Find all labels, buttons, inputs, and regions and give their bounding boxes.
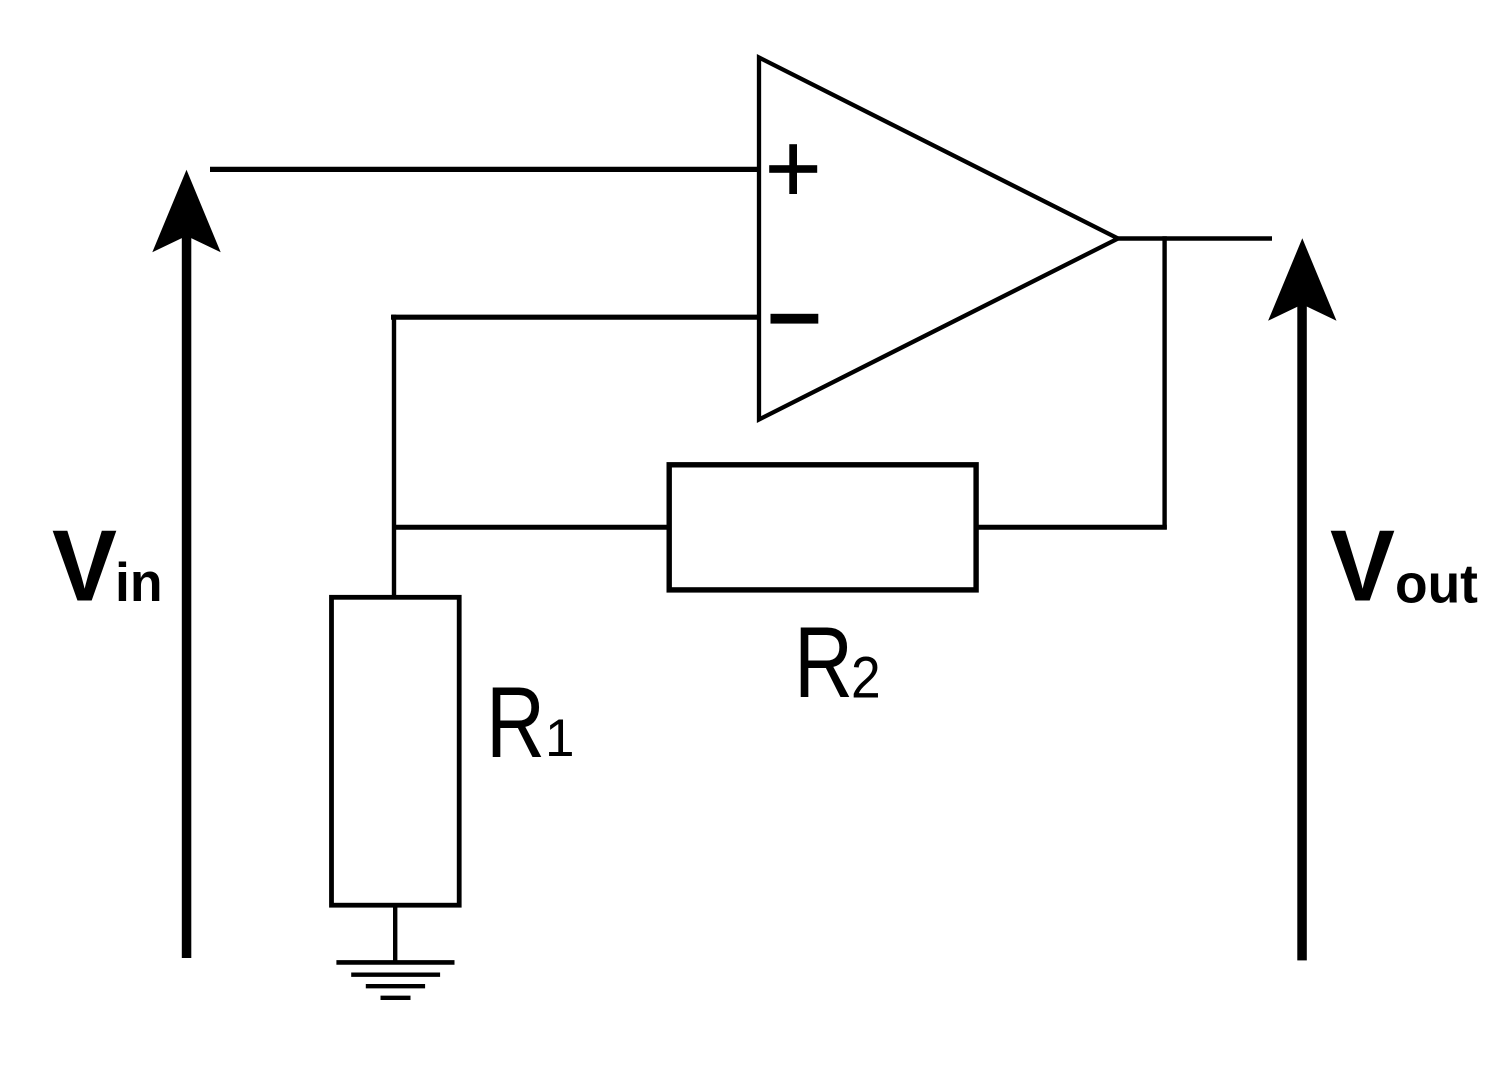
- svg-text:out: out: [1395, 554, 1478, 615]
- wire: non-inverting input wire: [210, 167, 757, 172]
- op-amp plus pin label: [769, 144, 817, 194]
- wire: R1 to ground: [393, 903, 397, 962]
- wire: feedback horizontal left of R2: [394, 525, 672, 530]
- svg-text:R: R: [794, 607, 853, 719]
- wire: inverting node vertical segment: [392, 315, 396, 599]
- ground: [336, 962, 454, 997]
- label R2: [794, 607, 881, 719]
- svg-text:R: R: [486, 667, 545, 779]
- Vin arrow: [152, 170, 220, 958]
- Vout arrow: [1268, 238, 1336, 960]
- wire: feedback vertical drop: [1162, 236, 1166, 529]
- op-amp U1: [759, 58, 1118, 420]
- wire: op-amp output: [1118, 236, 1272, 240]
- svg-text:V: V: [52, 510, 117, 623]
- op-amp minus pin label: [771, 314, 819, 324]
- label Vin: [52, 510, 163, 623]
- resistor R2: [669, 465, 976, 590]
- label R1: [486, 667, 574, 779]
- wire: inverting input horizontal segment: [391, 315, 757, 320]
- svg-text:1: 1: [545, 709, 574, 768]
- label Vout: [1330, 510, 1478, 623]
- resistor R1: [332, 597, 460, 905]
- svg-text:in: in: [115, 551, 163, 613]
- svg-text:2: 2: [851, 645, 881, 710]
- wire: feedback horizontal right of R2: [973, 525, 1167, 530]
- svg-text:V: V: [1330, 510, 1395, 623]
